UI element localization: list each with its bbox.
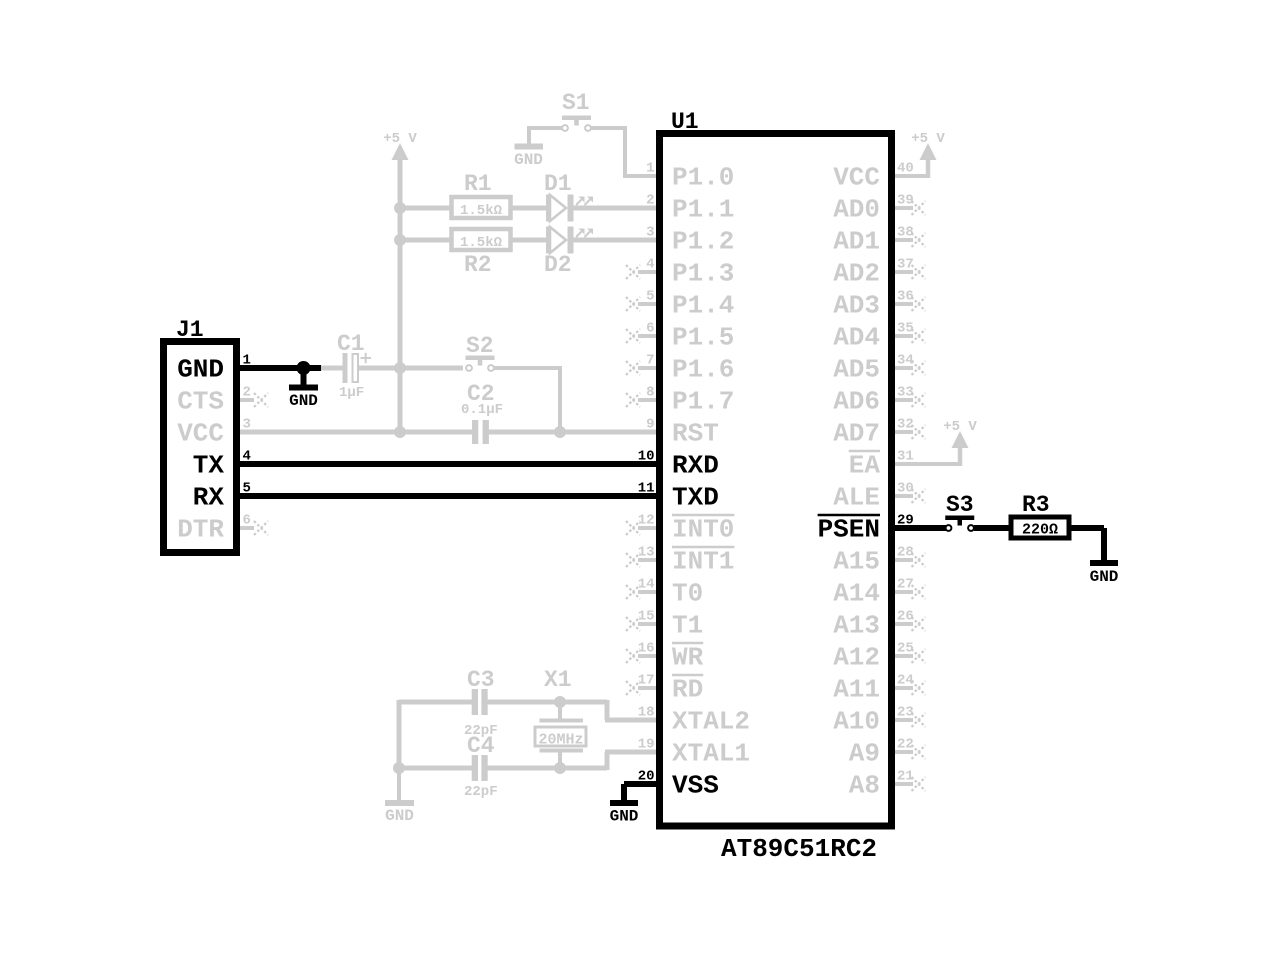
pin 9 RST (U1 left)	[646, 417, 719, 449]
svg-text:AD2: AD2	[833, 259, 880, 289]
pin 36 AD3 (U1 right)	[833, 289, 925, 321]
capacitor C3	[472, 689, 488, 715]
pin 20 VSS (U1 left)	[638, 769, 719, 801]
svg-text:P1.6: P1.6	[672, 355, 734, 385]
pin 26 A13 (U1 right)	[833, 609, 925, 641]
wire EA pin 31 to +5V	[893, 462, 960, 466]
svg-text:A13: A13	[833, 611, 880, 641]
wire TX to RXD	[237, 461, 658, 467]
pushbutton S2	[466, 356, 495, 371]
svg-text:U1: U1	[671, 109, 699, 135]
svg-text:CTS: CTS	[177, 387, 224, 417]
svg-text:A11: A11	[833, 675, 880, 705]
pin 5 P1.4 (U1 left)	[626, 289, 734, 321]
svg-text:AD3: AD3	[833, 291, 880, 321]
LED D1	[546, 195, 593, 222]
LED D2	[546, 227, 593, 254]
svg-text:31: 31	[897, 449, 914, 465]
svg-text:19: 19	[638, 737, 655, 753]
svg-text:GND: GND	[610, 808, 639, 826]
wire VSS to ground	[624, 781, 658, 787]
svg-text:GND: GND	[1090, 568, 1119, 586]
pin 1 GND (J1)	[177, 353, 251, 385]
svg-text:3: 3	[243, 417, 251, 433]
svg-text:1.5kΩ: 1.5kΩ	[460, 203, 503, 219]
wire R1 to D1	[510, 206, 547, 211]
wire D1 to pin 2	[573, 206, 658, 211]
svg-text:AD6: AD6	[833, 387, 880, 417]
wire RX to TXD	[237, 493, 658, 499]
svg-text:X1: X1	[544, 667, 572, 693]
svg-text:220Ω: 220Ω	[1022, 522, 1058, 539]
svg-text:1µF: 1µF	[339, 385, 364, 401]
resistor R2	[452, 229, 511, 250]
pin 35 AD4 (U1 right)	[833, 321, 925, 353]
pin 1 P1.0 (U1 left)	[646, 161, 734, 193]
pin 6 P1.5 (U1 left)	[626, 321, 734, 353]
wire XTAL1 bottom row	[399, 766, 474, 771]
svg-text:P1.4: P1.4	[672, 291, 734, 321]
resistor R3	[1011, 517, 1069, 538]
node junction rail/RST	[394, 426, 406, 438]
svg-text:AD1: AD1	[833, 227, 880, 257]
+5V power symbol (EA)	[943, 419, 977, 448]
svg-text:GND: GND	[514, 151, 543, 169]
wire C2 to RST pin 9	[487, 430, 658, 435]
pin 11 TXD (U1 left)	[638, 481, 719, 513]
svg-text:C4: C4	[467, 733, 495, 759]
svg-text:EA: EA	[849, 451, 881, 481]
wire R3 to ground	[1067, 525, 1104, 531]
svg-text:DTR: DTR	[177, 515, 224, 545]
svg-text:GND: GND	[385, 807, 414, 825]
svg-text:XTAL1: XTAL1	[672, 739, 750, 769]
wire VCC(J1) / RST row	[238, 430, 474, 435]
svg-text:D2: D2	[544, 252, 572, 278]
svg-text:GND: GND	[177, 355, 224, 385]
svg-text:TXD: TXD	[672, 483, 719, 513]
wire C4 to XTAL1 corner	[487, 766, 607, 771]
IC U1 box	[660, 134, 892, 827]
pin 33 AD6 (U1 right)	[833, 385, 925, 417]
svg-text:A14: A14	[833, 579, 880, 609]
svg-text:+5 V: +5 V	[383, 131, 417, 147]
svg-text:VCC: VCC	[177, 419, 224, 449]
pin 12 INT0 (U1 left)	[626, 513, 734, 545]
wire +5V rail vertical x=400	[398, 158, 403, 432]
svg-text:18: 18	[638, 705, 655, 721]
wire J1 GND net to C1	[318, 366, 344, 371]
svg-text:+5 V: +5 V	[943, 419, 977, 435]
resistor R1	[452, 197, 511, 218]
svg-text:S3: S3	[946, 492, 974, 518]
svg-text:2: 2	[646, 193, 654, 209]
svg-text:P1.3: P1.3	[672, 259, 734, 289]
pin 24 A11 (U1 right)	[833, 673, 925, 705]
+5V power symbol (left rail)	[383, 131, 417, 160]
svg-text:INT1: INT1	[672, 547, 734, 577]
pin 6 DTR (J1)	[177, 513, 268, 545]
pin 30 ALE (U1 right)	[833, 481, 925, 513]
node junction C1/+5V/S2	[394, 362, 406, 374]
pin 4 P1.3 (U1 left)	[626, 257, 734, 289]
pin 29 PSEN (U1 right)	[818, 513, 914, 545]
wire +5V to R1	[398, 206, 451, 211]
wire R2 to D2	[510, 238, 547, 243]
svg-text:XTAL2: XTAL2	[672, 707, 750, 737]
node junction +5V/R2	[394, 234, 406, 246]
ground (crystal)	[385, 768, 414, 825]
wire S1 left to ground	[529, 126, 562, 130]
pin 3 VCC (J1)	[177, 417, 251, 449]
pin 28 A15 (U1 right)	[833, 545, 925, 577]
svg-text:3: 3	[646, 225, 654, 241]
pushbutton S1	[562, 116, 591, 131]
pin 38 AD1 (U1 right)	[833, 225, 925, 257]
svg-text:VSS: VSS	[672, 771, 719, 801]
wire node to S2	[400, 366, 463, 371]
wire S3 to R3	[974, 525, 1013, 531]
svg-text:C3: C3	[467, 667, 495, 693]
pushbutton S3	[945, 516, 974, 531]
wire left vertical crystal rail	[397, 700, 402, 770]
connector J1 box	[164, 342, 237, 553]
svg-text:S2: S2	[466, 333, 494, 359]
pin 37 AD2 (U1 right)	[833, 257, 925, 289]
svg-text:P1.2: P1.2	[672, 227, 734, 257]
pin 2 P1.1 (U1 left)	[646, 193, 734, 225]
svg-text:20MHz: 20MHz	[538, 732, 583, 749]
wire VCC pin 40 to +5V	[893, 174, 928, 178]
ground (S1)	[514, 128, 543, 169]
svg-text:D1: D1	[544, 171, 572, 197]
pin 13 INT1 (U1 left)	[626, 545, 734, 577]
svg-text:AD0: AD0	[833, 195, 880, 225]
svg-text:GND: GND	[289, 392, 318, 410]
pin 7 P1.6 (U1 left)	[626, 353, 734, 385]
svg-text:22pF: 22pF	[464, 784, 498, 800]
svg-text:ALE: ALE	[833, 483, 880, 513]
svg-text:AD4: AD4	[833, 323, 880, 353]
pin 17 RD (U1 left)	[626, 673, 703, 705]
node junction left bottom	[393, 762, 405, 774]
pin 40 VCC (U1 right)	[833, 161, 914, 193]
pin 16 WR (U1 left)	[626, 641, 704, 673]
svg-text:R1: R1	[464, 171, 492, 197]
svg-text:A9: A9	[849, 739, 880, 769]
svg-text:1: 1	[646, 161, 654, 177]
svg-text:P1.1: P1.1	[672, 195, 734, 225]
svg-text:S1: S1	[562, 90, 590, 116]
pin 23 A10 (U1 right)	[833, 705, 925, 737]
svg-text:P1.5: P1.5	[672, 323, 734, 353]
node junction +5V/R1	[394, 202, 406, 214]
svg-text:R3: R3	[1022, 492, 1050, 518]
svg-text:VCC: VCC	[833, 163, 880, 193]
svg-text:RST: RST	[672, 419, 719, 449]
capacitor C4	[472, 755, 488, 781]
svg-text:40: 40	[897, 161, 914, 177]
svg-text:T0: T0	[672, 579, 703, 609]
+5V power symbol (VCC)	[911, 131, 945, 160]
svg-text:R2: R2	[464, 252, 492, 278]
svg-text:P1.7: P1.7	[672, 387, 734, 417]
pin 21 A8 (U1 right)	[849, 769, 926, 801]
wire J1 GND to node	[237, 365, 321, 371]
svg-text:A12: A12	[833, 643, 880, 673]
wire C1 to +5V rail node	[357, 366, 402, 371]
pin 39 AD0 (U1 right)	[833, 193, 925, 225]
svg-text:AD5: AD5	[833, 355, 880, 385]
node junction X1 bottom	[554, 762, 566, 774]
node junction GND tap	[297, 361, 311, 375]
node junction S2/RST	[554, 426, 566, 438]
pin 31 EA (U1 right)	[849, 449, 914, 481]
pin 5 RX (J1)	[193, 481, 251, 513]
node junction X1 top	[554, 696, 566, 708]
pin 10 RXD (U1 left)	[638, 449, 719, 481]
svg-text:+5 V: +5 V	[911, 131, 945, 147]
svg-text:A15: A15	[833, 547, 880, 577]
wire S2 to RST net	[494, 366, 560, 370]
svg-text:INT0: INT0	[672, 515, 734, 545]
pin 32 AD7 (U1 right)	[833, 417, 925, 449]
pin 18 XTAL2 (U1 left)	[638, 705, 750, 737]
wire +5V to R2	[398, 238, 451, 243]
pin 25 A12 (U1 right)	[833, 641, 925, 673]
svg-text:WR: WR	[672, 643, 704, 673]
svg-text:9: 9	[646, 417, 654, 433]
pin 27 A14 (U1 right)	[833, 577, 925, 609]
crystal X1	[535, 702, 586, 768]
wire C3 to XTAL2 corner	[487, 700, 607, 705]
svg-text:TX: TX	[193, 451, 225, 481]
pin 15 T1 (U1 left)	[626, 609, 703, 641]
svg-text:AD7: AD7	[833, 419, 880, 449]
wire D2 to pin 3	[573, 238, 658, 243]
pin 2 CTS (J1)	[177, 385, 268, 417]
svg-text:P1.0: P1.0	[672, 163, 734, 193]
wire XTAL2 top row	[399, 700, 474, 705]
svg-text:RXD: RXD	[672, 451, 719, 481]
pin 8 P1.7 (U1 left)	[626, 385, 734, 417]
svg-text:J1: J1	[176, 317, 204, 343]
ground (VSS)	[610, 784, 639, 826]
capacitor C1 (polarized)	[343, 353, 372, 383]
wire S1 right to pin 1 P1.0	[591, 126, 625, 130]
svg-text:T1: T1	[672, 611, 703, 641]
pin 3 P1.2 (U1 left)	[646, 225, 734, 257]
pin 4 TX (J1)	[193, 449, 251, 481]
svg-text:1.5kΩ: 1.5kΩ	[460, 235, 503, 251]
pin 22 A9 (U1 right)	[849, 737, 926, 769]
pin 19 XTAL1 (U1 left)	[638, 737, 750, 769]
pin 14 T0 (U1 left)	[626, 577, 703, 609]
pin 34 AD5 (U1 right)	[833, 353, 925, 385]
svg-text:RX: RX	[193, 483, 225, 513]
svg-text:RD: RD	[672, 675, 703, 705]
svg-text:C1: C1	[337, 331, 365, 357]
wire PSEN to S3	[893, 525, 946, 531]
capacitor C2	[472, 420, 489, 444]
ground (J1 GND)	[289, 368, 318, 410]
svg-text:A10: A10	[833, 707, 880, 737]
svg-text:0.1µF: 0.1µF	[461, 402, 503, 418]
svg-text:A8: A8	[849, 771, 880, 801]
ground (R3)	[1090, 528, 1119, 586]
svg-text:PSEN: PSEN	[818, 515, 880, 545]
svg-text:AT89C51RC2: AT89C51RC2	[721, 834, 877, 864]
